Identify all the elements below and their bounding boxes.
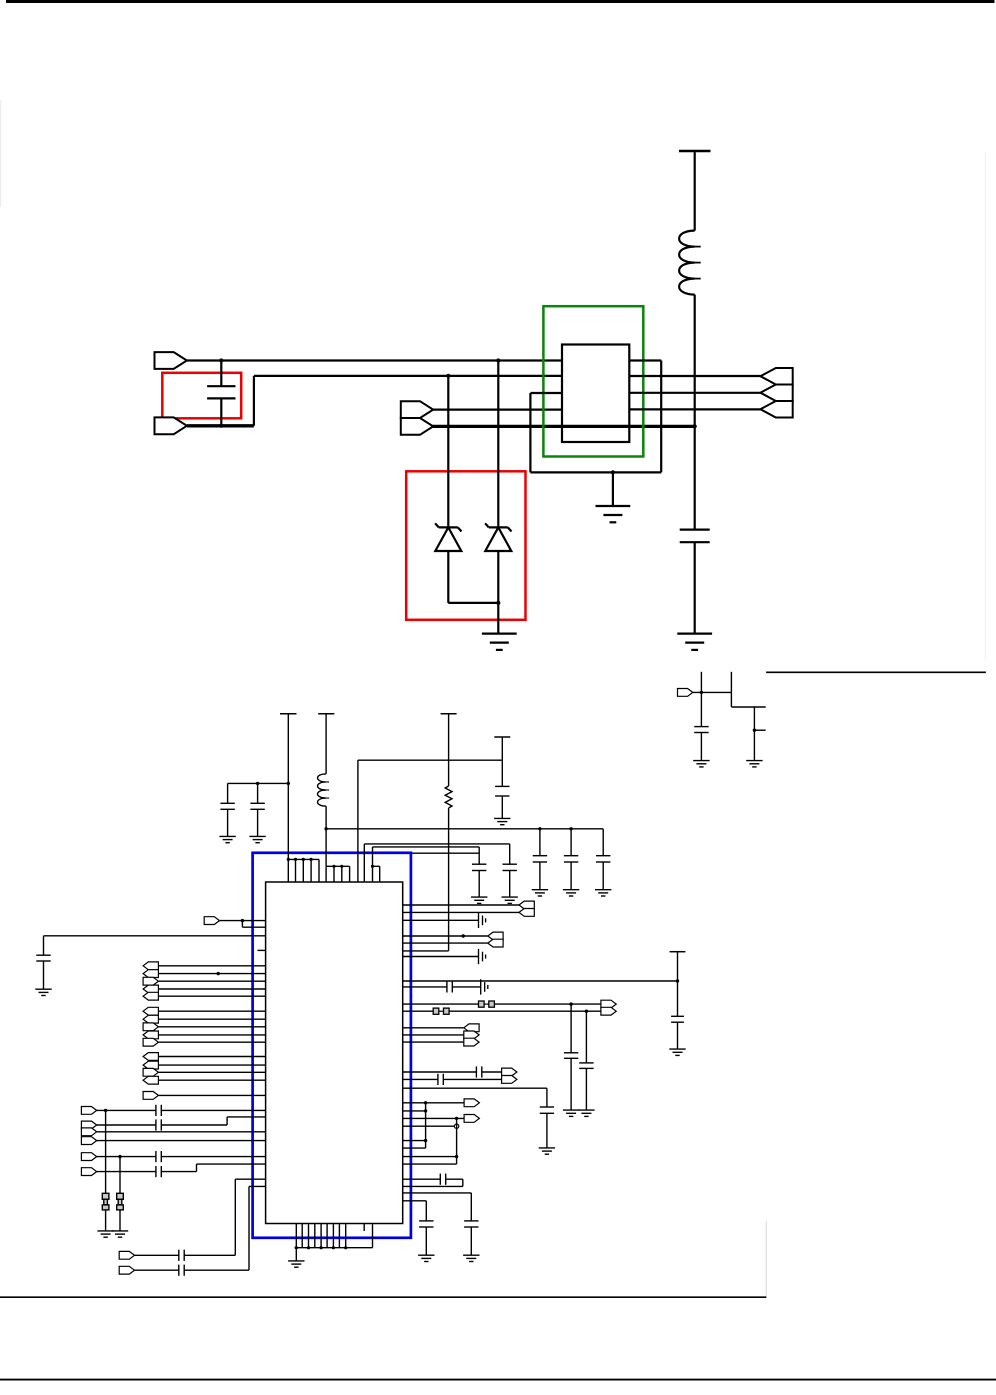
wire row1110: [97, 1109, 156, 1111]
capacitor C2: [680, 528, 710, 530]
junction G2: [340, 865, 343, 868]
connector P12 flag1: [464, 1024, 479, 1032]
wire r1156: [403, 1156, 457, 1158]
capacitor r1088: [546, 1088, 548, 1107]
pin U2 bottom right: [372, 1224, 374, 1248]
wire groupB y1034.9: [158, 1034, 265, 1036]
wire row1140: [97, 1140, 266, 1142]
ground tap bottom bus: [295, 1248, 297, 1261]
junction bottom bus: [320, 1246, 323, 1249]
ground FB2: [112, 1230, 128, 1232]
wire netB: [358, 759, 502, 761]
power rail bar VCC6: [670, 951, 686, 953]
connector P2B: [401, 418, 433, 435]
connector P4: [678, 689, 693, 697]
wire L2 down: [325, 806, 327, 866]
connector P9 flag1: [519, 901, 534, 909]
wire net5 thick: [432, 425, 695, 428]
connector groupA L-flag: [143, 985, 158, 993]
wire U1 out3: [629, 408, 760, 410]
wire P5 to pin: [242, 920, 265, 922]
faint left page edge: [0, 100, 2, 207]
ferrite bead r1004: [479, 1001, 485, 1007]
junction r1102: [424, 1101, 427, 1104]
transformer shield loop bottom: [530, 471, 661, 473]
bus vertical right A: [425, 1103, 427, 1148]
capacitor r1192: [470, 1193, 472, 1221]
capacitor C1: [220, 361, 222, 387]
junction net7: [753, 729, 756, 732]
wire r905: [403, 904, 519, 906]
ground r1004: [563, 1109, 579, 1111]
no-connect ring r1126: [454, 1124, 458, 1128]
IC U2 body: [266, 882, 403, 1224]
ground capacitor netA: [595, 889, 611, 891]
connector P6 row1: [81, 1107, 96, 1115]
ground bottom bus: [288, 1260, 304, 1262]
wire bead2: [119, 1157, 121, 1194]
wire VCC3 down: [325, 714, 327, 774]
wire U1 out2: [629, 392, 760, 394]
wire groupA y973.6: [158, 973, 265, 975]
wire groupC y1065.1: [158, 1064, 265, 1066]
pin U2 top G1: [310, 859, 312, 882]
connector P10 flag1: [488, 932, 503, 940]
pin stub U2 left: [258, 949, 266, 951]
wire P5 branch: [241, 921, 243, 928]
wire groupB y1042.2: [158, 1041, 265, 1043]
wire row1270: [135, 1269, 179, 1271]
series capacitor row1110: [155, 1105, 157, 1116]
connector P2A: [401, 401, 433, 418]
wire r1088 long: [403, 1087, 547, 1089]
wire groupA y996.2: [158, 995, 265, 997]
connector P6 row2: [81, 1121, 96, 1129]
wire row1156: [97, 1156, 156, 1158]
wire r1179 loop top: [403, 1178, 441, 1180]
pin U2 bottom: [314, 1224, 316, 1248]
ground netF: [35, 988, 51, 990]
wire net2 thick segment: [187, 424, 254, 427]
capacitor VCC5: [495, 785, 509, 787]
pin U2 top G3: [379, 866, 381, 882]
junction bottom bus: [295, 1246, 298, 1249]
termination r920: [478, 913, 480, 928]
wire r1102: [403, 1102, 464, 1104]
junction r936: [462, 934, 465, 937]
wire r1027: [403, 1027, 464, 1029]
junction r1004: [569, 1002, 572, 1005]
wire r1126: [403, 1125, 457, 1127]
connector groupB L-flag: [143, 1015, 158, 1023]
transformer shield loop right: [660, 361, 662, 473]
wire r1200: [403, 1200, 427, 1202]
inductor L1: [679, 231, 695, 295]
connector groupA L-flag: [143, 962, 158, 970]
connector P14 flag2: [464, 1115, 479, 1123]
series capacitor r986: [446, 981, 448, 992]
pin U2 bottom: [338, 1224, 340, 1248]
wire L1 to C2: [694, 295, 696, 530]
wire netD: [373, 846, 480, 848]
ground r1011: [578, 1109, 594, 1111]
pin U2 bottom: [308, 1224, 310, 1248]
connector P10 flag2: [488, 939, 503, 947]
connector P7 row5: [81, 1153, 96, 1161]
connector P3 flag3: [760, 401, 792, 418]
capacitor netC: [509, 844, 511, 864]
wire r1011: [403, 1010, 434, 1012]
pin U2 top G1: [287, 859, 289, 882]
wire netC: [364, 843, 509, 845]
pin U2 top G2: [349, 866, 351, 882]
wire groupC y1080.2: [158, 1079, 265, 1081]
ground decoupling: [249, 835, 265, 837]
series capacitor row1125: [155, 1119, 157, 1130]
connector P9 flag2: [519, 909, 534, 917]
transformer shield loop left: [530, 392, 562, 394]
termination r956: [478, 949, 480, 964]
connector groupC L-flag: [143, 1061, 158, 1069]
wire net6 horizontal: [731, 706, 765, 708]
junction net5-L1: [693, 424, 697, 428]
wire net2 riser: [253, 376, 255, 426]
wire r1118: [403, 1117, 464, 1119]
pin U2 bottom: [332, 1224, 334, 1248]
connector groupC R-flag: [143, 1068, 158, 1076]
connector P12 flag3: [464, 1038, 479, 1046]
pin bus bottom: [295, 1247, 373, 1249]
IC U1 body: [562, 345, 629, 443]
junction G1: [302, 858, 305, 861]
series capacitor row1156: [155, 1151, 157, 1162]
junction row1110: [104, 1109, 107, 1112]
junction netA cap2: [569, 827, 572, 830]
capacitor netA: [570, 829, 572, 856]
junction P5: [241, 919, 244, 922]
pin U2 bottom: [295, 1224, 297, 1248]
ground net7: [746, 760, 762, 762]
connector P11 flag2: [601, 1007, 616, 1015]
capacitor decoupling: [227, 783, 229, 803]
capacitor r1200: [425, 1201, 427, 1221]
ground r1088: [539, 1147, 555, 1149]
wire row1171: [97, 1171, 156, 1173]
pin U2 top G2: [341, 866, 343, 882]
junction row1156: [118, 1155, 121, 1158]
connector groupC L-flag: [143, 1053, 158, 1061]
connector P8 row2: [119, 1266, 134, 1274]
junction r1011: [585, 1010, 588, 1013]
ground VCC6: [669, 1048, 685, 1050]
junction net2-C1: [219, 424, 223, 428]
zener diode D1: [439, 526, 458, 528]
pin U2 top G2: [333, 866, 335, 882]
connector groupA L-flag: [143, 992, 158, 1000]
wire r1186 loop bottom: [403, 1185, 463, 1187]
wire netC riser: [363, 844, 365, 882]
wire D1 to D2: [448, 602, 498, 604]
red highlight box 2: [406, 471, 525, 620]
wire net7 vertical: [753, 706, 755, 760]
ground netD: [471, 896, 487, 898]
wire netD riser: [372, 847, 374, 866]
connector P6 row4: [81, 1137, 96, 1145]
connector P13 flag2: [502, 1076, 517, 1084]
capacitor VCC6: [671, 1015, 684, 1017]
wire r936: [403, 935, 488, 937]
wire r1042: [403, 1041, 464, 1043]
junction bottom bus: [307, 1246, 310, 1249]
ground diodes: [482, 632, 517, 634]
wire bead1: [105, 1110, 107, 1193]
junction diodes: [496, 601, 500, 605]
wire row1125: [97, 1124, 156, 1126]
connector P8 row1: [119, 1251, 134, 1259]
resistor R1: [445, 786, 452, 808]
junction G1: [294, 858, 297, 861]
wire r920: [403, 919, 479, 921]
pin U2 bottom: [320, 1224, 322, 1248]
wire row1131: [97, 1131, 266, 1133]
wire C3 top: [700, 672, 702, 727]
connector groupD R-flag: [143, 1092, 158, 1100]
wire groupB y1019.2: [158, 1018, 265, 1020]
connector P7 row6: [81, 1168, 96, 1176]
wire D1 anode: [447, 376, 449, 528]
junction G1: [287, 858, 290, 861]
ground r1192: [463, 1254, 479, 1256]
junction shield-ground: [611, 470, 615, 474]
connector P14 flag1: [464, 1099, 479, 1107]
wire VCC6: [677, 952, 679, 1017]
pin bus G1: [288, 858, 319, 860]
wire groupB y1011.2: [158, 1010, 265, 1012]
faint frame vertical right: [765, 1221, 767, 1297]
wire r981 long: [403, 980, 678, 982]
capacitor netA: [602, 829, 604, 856]
page top border bar: [6, 0, 995, 3]
power rail bar VCC1: [679, 150, 711, 153]
capacitor r1011 shunt: [585, 1011, 587, 1063]
junction net1-D2: [496, 358, 500, 362]
wire net4: [432, 409, 562, 411]
junction decoupling 1: [256, 782, 259, 785]
connector P3 flag2: [760, 384, 792, 401]
ferrite bead FB1: [102, 1193, 109, 1199]
wire decoupling pair: [228, 782, 289, 784]
page bottom border line: [0, 1379, 996, 1381]
wire r1148: [403, 1147, 426, 1149]
wire R1 to pin: [403, 950, 449, 952]
wire groupC y1056.5: [158, 1056, 265, 1058]
junction r981: [676, 979, 679, 982]
wire groupA y989.0: [158, 988, 265, 990]
ground netC: [502, 896, 518, 898]
power rail bar VCC4: [441, 713, 457, 715]
wire groupD: [158, 1094, 265, 1096]
ground capacitor netA: [532, 889, 548, 891]
junction net2-D1: [446, 374, 450, 378]
bus vertical right B: [456, 1118, 458, 1164]
series capacitor row1270: [178, 1265, 180, 1276]
termination r986: [480, 979, 482, 994]
junction G2: [332, 865, 335, 868]
pin bus G3: [371, 865, 380, 867]
ground VCC5: [494, 817, 510, 819]
pin U2 top G1: [295, 859, 297, 882]
connector P11 flag1: [601, 1000, 616, 1008]
ground r1200: [418, 1254, 434, 1256]
capacitor netD: [478, 847, 480, 864]
wire r956: [403, 956, 479, 958]
pin U2 bottom: [345, 1224, 347, 1248]
pin U2 top G3: [372, 866, 374, 882]
zener diode D2: [489, 526, 508, 528]
junction decoupling 2: [287, 782, 290, 785]
series capacitor row1171: [155, 1166, 157, 1177]
wire r1140: [403, 1140, 426, 1142]
ground C2: [677, 632, 712, 634]
capacitor C3: [694, 726, 708, 728]
junction r1156: [455, 1155, 458, 1158]
wire row1255: [135, 1254, 179, 1256]
connector groupA L-flag: [143, 970, 158, 978]
connector P1B: [155, 417, 187, 434]
stub net7: [754, 729, 765, 731]
wire netE: [411, 852, 479, 854]
wire R1 down: [448, 808, 450, 951]
series capacitor row1255: [178, 1250, 180, 1261]
ground decoupling: [219, 835, 235, 837]
junction netA cap1: [538, 827, 541, 830]
power rail bar VCC3: [318, 713, 334, 715]
junction r1110: [424, 1109, 427, 1112]
ground stub U1: [612, 472, 614, 506]
pin U2 bottom: [326, 1224, 328, 1248]
ferrite bead FB2: [117, 1193, 124, 1199]
wire r1192: [403, 1192, 472, 1194]
wire U1 out1: [629, 375, 760, 377]
wire netF: [44, 935, 266, 937]
pin bus G2: [326, 865, 350, 867]
ground capacitor netA: [563, 889, 579, 891]
series capacitor r1072: [475, 1066, 477, 1077]
wire net6 riser: [730, 672, 732, 707]
wire groupB y1026.8: [158, 1026, 265, 1028]
wire r912: [403, 911, 519, 913]
wire P5: [220, 920, 243, 922]
junction L2-netA: [324, 827, 327, 830]
wire D2 anode: [497, 361, 499, 528]
connector P13 flag1: [502, 1068, 517, 1076]
wire netB riser: [357, 760, 359, 882]
power rail bar VCC2: [280, 713, 297, 715]
pin U2 top G2: [325, 866, 327, 882]
wire r1034: [403, 1034, 464, 1036]
junction groupA row2: [217, 972, 220, 975]
junction r1140: [424, 1139, 427, 1142]
junction r1118: [455, 1117, 458, 1120]
blue highlight box U2: [253, 853, 411, 1238]
power rail bar VCC5: [494, 736, 510, 738]
wire VCC4 down: [448, 714, 450, 786]
faint right page edge: [984, 152, 986, 660]
connector groupB L-flag: [143, 1007, 158, 1015]
connector groupB L-flag: [143, 1031, 158, 1039]
wire r943: [403, 942, 488, 944]
capacitor netF: [43, 936, 45, 955]
wire P4: [693, 691, 732, 693]
connector P5: [204, 917, 219, 925]
inductor L2: [318, 774, 327, 806]
capacitor decoupling: [257, 783, 259, 803]
capacitor netA: [539, 829, 541, 856]
junction net1-C1: [219, 358, 223, 362]
connector P12 flag2: [464, 1031, 479, 1039]
frame line bottom-left: [0, 1296, 766, 1298]
series capacitor r1079: [437, 1074, 439, 1085]
green highlight box: [543, 306, 643, 456]
wire r1072: [403, 1071, 477, 1073]
pin U2 top G1: [318, 859, 320, 882]
red highlight box 1: [162, 373, 241, 419]
wire r986: [403, 986, 447, 988]
ground FB1: [97, 1230, 113, 1232]
connector groupC L-flag: [143, 1076, 158, 1084]
wire groupA y965.8: [158, 965, 265, 967]
junction bottom bus: [344, 1246, 347, 1249]
connector P1A: [155, 352, 187, 369]
wire groupC y1072.3: [158, 1071, 265, 1073]
wire netA: [326, 828, 603, 830]
connector groupB R-flag: [143, 1023, 158, 1031]
wire VCC2 down: [287, 714, 289, 860]
junction P4-C3: [700, 691, 703, 694]
wire VCC1 down: [694, 151, 696, 231]
wire net2 horizontal: [254, 375, 562, 377]
ground U1: [596, 505, 631, 507]
wire r1079: [403, 1078, 438, 1080]
wire r1004: [403, 1003, 479, 1005]
capacitor r1004 shunt: [570, 1004, 572, 1053]
connector groupB R-flag: [143, 1038, 158, 1046]
pin U2 top G1: [302, 859, 304, 882]
wire groupA y981.2: [158, 980, 265, 982]
pin stub U2 bottom: [363, 1224, 365, 1232]
wire net1 top: [187, 359, 562, 361]
wire VCC5 down: [501, 737, 503, 786]
frame line top-right: [766, 671, 986, 673]
junction G1: [310, 858, 313, 861]
pin U2 bottom: [301, 1224, 303, 1248]
ferrite bead r1011: [433, 1008, 439, 1014]
wire r1164: [403, 1163, 457, 1165]
ground C3: [693, 760, 709, 762]
wire r1110: [403, 1110, 426, 1112]
connector P6 row3: [81, 1128, 96, 1136]
junction bottom bus: [332, 1246, 335, 1249]
series capacitor r1179: [439, 1174, 441, 1185]
junction G3: [371, 865, 374, 868]
connector groupA R-flag: [143, 977, 158, 985]
connector P3 flag1: [760, 368, 792, 385]
